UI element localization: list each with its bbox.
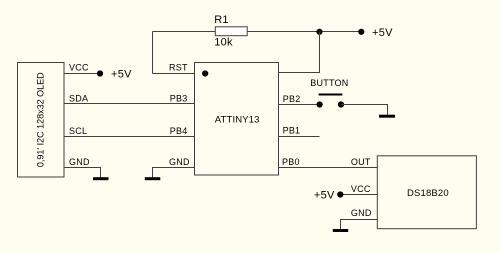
svg-text:SDA: SDA <box>69 94 88 104</box>
wire OLED GND to ground <box>64 168 101 178</box>
ground (button) <box>379 115 395 118</box>
node +5V terminal dot (DS18B20) <box>337 191 343 197</box>
svg-text:PB4: PB4 <box>170 126 188 136</box>
node +5V terminal dot (top) <box>358 29 364 35</box>
wire RST pullup vertical <box>152 32 154 74</box>
push button <box>317 95 345 108</box>
svg-text:+5V: +5V <box>111 68 132 80</box>
ground (DS18B20) <box>333 229 348 232</box>
pin 1 marker dot <box>202 70 208 76</box>
resistor R1 <box>215 27 247 36</box>
wire SDA to PB3 <box>64 103 195 105</box>
svg-text:OUT: OUT <box>351 157 371 167</box>
svg-text:GND: GND <box>69 157 90 167</box>
node junction dot on +5V rail <box>316 29 322 35</box>
ground (OLED) <box>93 177 109 180</box>
wire +5V rail top left segment <box>153 31 216 33</box>
node +5V terminal dot (OLED VCC) <box>97 70 103 76</box>
svg-text:DS18B20: DS18B20 <box>407 188 449 199</box>
wire +5V junction down to ATTINY13 VCC pin <box>279 32 320 73</box>
svg-text:PB3: PB3 <box>170 94 188 104</box>
svg-text:PB0: PB0 <box>282 157 300 167</box>
svg-text:VCC: VCC <box>351 184 371 194</box>
svg-text:ATTINY13: ATTINY13 <box>215 115 260 126</box>
svg-text:PB2: PB2 <box>283 94 301 104</box>
svg-text:VCC: VCC <box>69 62 89 72</box>
wire OLED VCC pin to +5V terminal <box>64 73 100 75</box>
svg-text:R1: R1 <box>214 14 229 26</box>
wire PB2 to button <box>279 104 320 106</box>
IC ATTINY13 <box>195 63 279 176</box>
wire PB0 to OUT <box>279 167 378 169</box>
svg-text:GND: GND <box>169 157 190 167</box>
wire +5V rail top right segment <box>247 31 361 33</box>
wire button to ground <box>341 105 388 115</box>
IC DS18B20 temperature sensor <box>377 156 476 229</box>
svg-text:GND: GND <box>351 208 372 218</box>
svg-text:SCL: SCL <box>69 126 87 136</box>
svg-text:+5V: +5V <box>314 189 335 201</box>
svg-text:+5V: +5V <box>372 27 393 39</box>
wire ATTINY13 GND to ground <box>153 168 195 178</box>
OLED display module 0,91' I2C 128x32 OLED <box>18 63 65 178</box>
svg-text:PB1: PB1 <box>283 125 301 135</box>
svg-text:RST: RST <box>169 62 188 72</box>
ground (ATTINY13) <box>145 177 161 180</box>
wire DS18B20 GND to ground <box>341 220 378 230</box>
svg-text:BUTTON: BUTTON <box>310 78 348 88</box>
wire PB1 stub <box>279 136 320 138</box>
wire SCL to PB4 <box>64 136 195 138</box>
svg-text:0,91' I2C 128x32 OLED: 0,91' I2C 128x32 OLED <box>36 72 46 167</box>
wire DS18B20 VCC to +5V terminal <box>340 194 377 196</box>
svg-text:10k: 10k <box>214 37 233 49</box>
wire RST <box>153 73 195 75</box>
